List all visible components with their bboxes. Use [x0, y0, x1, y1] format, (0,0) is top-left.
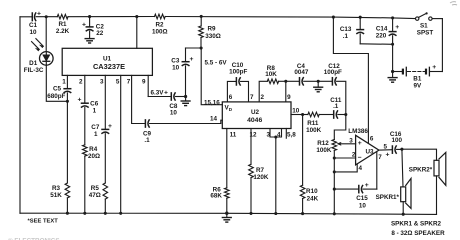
- svg-text:8 - 32Ω SPEAKER: 8 - 32Ω SPEAKER: [391, 230, 445, 237]
- wire top rail R1 to R2: [68, 16, 155, 18]
- resistor R4: [83, 145, 88, 156]
- svg-text:+: +: [395, 24, 399, 31]
- svg-text:LM386: LM386: [348, 128, 368, 135]
- node junction rail pins3,4: [274, 212, 277, 215]
- wire U1 pin9 stub: [147, 75, 149, 96]
- resistor R1: [57, 14, 68, 19]
- wire C1 node down to D1: [45, 17, 47, 52]
- node junction pins 3,4: [274, 135, 277, 138]
- svg-text:D1: D1: [29, 60, 38, 67]
- svg-text:12: 12: [249, 131, 257, 138]
- svg-text:4: 4: [277, 131, 281, 138]
- svg-text:4046: 4046: [247, 117, 262, 124]
- svg-text:C5: C5: [53, 86, 62, 93]
- wire right border down to battery: [441, 19, 443, 72]
- svg-text:6.3V: 6.3V: [151, 90, 165, 97]
- svg-text:R5: R5: [91, 185, 100, 192]
- node junction battery minus: [391, 70, 394, 73]
- svg-text:5: 5: [384, 143, 388, 150]
- svg-text:6: 6: [229, 94, 233, 101]
- capacitor C7: [102, 129, 109, 133]
- wire top rail left: [20, 16, 32, 18]
- svg-text:120K: 120K: [253, 174, 269, 181]
- wire U2 pin2 stub up: [259, 81, 267, 102]
- svg-text:5,8: 5,8: [287, 132, 296, 139]
- wire R12 bottom to ground rail: [333, 158, 335, 214]
- wire C13 ground link to C14: [360, 43, 392, 46]
- wire pins 3,4 to ground rail: [275, 137, 277, 214]
- wire ground rail: [20, 213, 437, 214]
- wire pin2 of LM386: [334, 157, 355, 159]
- wire U2 pin11 stub: [226, 129, 228, 188]
- wire node to SPKR1: [402, 149, 403, 187]
- svg-text:SPST: SPST: [417, 29, 434, 36]
- svg-text:2: 2: [79, 78, 83, 85]
- IC U2 box 4046: [222, 102, 291, 129]
- capacitor C11: [334, 111, 338, 118]
- svg-text:+: +: [432, 64, 436, 71]
- svg-text:9V: 9V: [413, 83, 422, 90]
- wire pin4 to ground: [334, 164, 357, 172]
- svg-text:R10: R10: [306, 188, 318, 195]
- node junction C2: [88, 15, 91, 18]
- capacitor C8: [171, 93, 175, 100]
- svg-text:VD: VD: [225, 105, 233, 112]
- svg-text:24K: 24K: [307, 195, 319, 202]
- svg-text:14: 14: [210, 115, 218, 122]
- capacitor C14: [392, 18, 394, 31]
- svg-text:680pF: 680pF: [47, 93, 65, 100]
- svg-text:11: 11: [230, 131, 237, 138]
- svg-text:100: 100: [391, 137, 402, 144]
- node junction C13: [359, 16, 362, 19]
- wire U1 pin7 down and right: [132, 75, 145, 123]
- svg-text:4: 4: [358, 165, 362, 172]
- wire C10 to pin7: [241, 81, 249, 102]
- svg-text:C7: C7: [91, 124, 100, 131]
- svg-text:SPKR1*: SPKR1*: [376, 194, 400, 201]
- svg-text:3: 3: [349, 138, 353, 145]
- svg-text:2: 2: [260, 94, 264, 101]
- svg-text:100pF: 100pF: [229, 69, 247, 76]
- svg-text:3: 3: [100, 78, 104, 85]
- svg-text:10: 10: [292, 108, 300, 115]
- svg-text:FIL-3C: FIL-3C: [24, 67, 44, 74]
- wire U1 pin2 stub: [84, 75, 86, 102]
- resistor R3: [65, 183, 70, 198]
- wire C15 up to pin7: [376, 152, 378, 189]
- wire U2 pin6 stub up: [227, 81, 236, 102]
- svg-text:R12: R12: [317, 140, 329, 147]
- svg-text:5.5 - 6V: 5.5 - 6V: [205, 59, 228, 66]
- svg-text:R7: R7: [256, 167, 265, 174]
- svg-text:9: 9: [142, 78, 146, 85]
- svg-text:7: 7: [250, 94, 254, 101]
- op-amp U3 LM386: [356, 135, 379, 165]
- node junction rail R10: [301, 212, 304, 215]
- svg-text:7: 7: [378, 154, 382, 161]
- svg-text:+: +: [386, 152, 390, 159]
- resistor R2: [155, 14, 166, 19]
- svg-text:+: +: [78, 97, 82, 104]
- svg-text:100K: 100K: [316, 147, 332, 154]
- wire LM386 output pin5: [379, 149, 392, 151]
- node junction C11-C12-R12: [344, 113, 347, 116]
- svg-text:R1: R1: [58, 21, 67, 28]
- svg-text:10K: 10K: [265, 71, 277, 78]
- svg-text:10: 10: [359, 202, 367, 209]
- wire pin1 node to R3: [66, 101, 68, 183]
- capacitor C10: [236, 78, 240, 85]
- wire C9 to U2 pin14: [150, 120, 223, 123]
- svg-text:.1: .1: [333, 103, 339, 110]
- svg-text:U3: U3: [365, 148, 374, 155]
- svg-text:100Ω: 100Ω: [152, 28, 168, 35]
- svg-text:.1: .1: [343, 33, 349, 40]
- capacitor C3: [185, 48, 187, 61]
- svg-text:+: +: [164, 90, 168, 97]
- svg-text:SPKR1 & SPKR2: SPKR1 & SPKR2: [391, 221, 442, 228]
- wire R9 to C3: [186, 47, 202, 49]
- svg-text:+: +: [82, 21, 86, 28]
- svg-text:0047: 0047: [294, 69, 309, 76]
- wire U2 pins 3,4 tie: [270, 129, 282, 138]
- node junction rail R6: [225, 212, 228, 215]
- wire U2 pin10 stub: [291, 114, 303, 116]
- svg-text:5: 5: [116, 78, 120, 85]
- wire R12 wiper to pin3: [339, 143, 355, 145]
- svg-text:.1: .1: [144, 137, 150, 144]
- ground below C8 node: [185, 97, 187, 101]
- svg-text:7: 7: [127, 78, 131, 85]
- wire C11 node to R12 top: [334, 115, 346, 140]
- svg-text:330Ω: 330Ω: [205, 33, 221, 40]
- svg-text:+: +: [108, 123, 112, 130]
- ground below rail at pin11: [226, 213, 228, 217]
- wire U1 pin5 to ground rail: [120, 75, 122, 213]
- wire U1 pin3 stub: [104, 75, 106, 129]
- node junction C1-D1: [45, 15, 48, 18]
- node junction LM386 supply: [332, 16, 335, 19]
- node junction pin10-R11-R10: [301, 113, 304, 116]
- ground below battery minus: [392, 72, 394, 78]
- svg-text:10: 10: [172, 64, 180, 71]
- svg-text:+: +: [190, 56, 194, 63]
- capacitor C5: [64, 89, 71, 93]
- svg-text:68K: 68K: [210, 193, 222, 200]
- svg-text:U2: U2: [251, 109, 260, 116]
- capacitor C6: [82, 103, 89, 107]
- resistor R10: [302, 115, 304, 186]
- wire R9 down to U2 Vdd pins 15,16: [201, 48, 222, 105]
- node junction rail R3: [66, 212, 69, 215]
- wire node to SPKR2: [402, 149, 437, 160]
- svg-text:R11: R11: [307, 120, 319, 127]
- svg-text:220: 220: [376, 32, 387, 39]
- svg-text:9: 9: [287, 94, 291, 101]
- wire pin9 stub: [285, 81, 287, 102]
- svg-text:*SEE TEXT: *SEE TEXT: [28, 219, 59, 225]
- resistor R6: [225, 188, 230, 198]
- node junction pin4 ground: [333, 170, 336, 173]
- svg-text:R2: R2: [155, 21, 164, 28]
- svg-text:15,16: 15,16: [204, 99, 220, 106]
- node junction R9 bottom: [200, 46, 203, 49]
- wire U1 pin1 stub: [66, 75, 68, 88]
- capacitor C2: [89, 17, 91, 27]
- resistor R7: [249, 164, 254, 177]
- op-amp U1 box: [62, 48, 152, 75]
- node junction speakers: [400, 148, 403, 151]
- wire top rail R2 to S1: [165, 17, 415, 19]
- node junction rail R4: [83, 212, 86, 215]
- wire U2 pin12 stub: [250, 129, 252, 165]
- resistor R9: [200, 16, 202, 26]
- svg-text:+: +: [365, 182, 369, 189]
- wire U2 pin 5,8 stub: [285, 129, 287, 139]
- svg-text:R9: R9: [207, 26, 216, 33]
- wire top rail C1 to R1: [36, 16, 57, 18]
- node junction C14 ground: [391, 43, 394, 46]
- capacitor C13: [359, 17, 361, 29]
- node junction rail SPKR1: [402, 213, 405, 216]
- node junction R9: [200, 15, 203, 18]
- svg-text:C6: C6: [90, 100, 99, 107]
- node junction R8-C4-pin9: [284, 80, 287, 83]
- svg-text:51K: 51K: [50, 192, 62, 199]
- node junction pin1-D1: [66, 100, 69, 103]
- svg-text:6: 6: [370, 135, 374, 142]
- svg-text:10: 10: [29, 29, 37, 36]
- svg-text:2.2K: 2.2K: [56, 28, 70, 35]
- node junction C8-C3-ground: [184, 95, 187, 98]
- svg-text:CA3237E: CA3237E: [93, 62, 125, 71]
- wire SPKR1 to ground rail: [402, 202, 404, 215]
- wire SPKR2 to ground rail: [436, 176, 438, 215]
- wire pin9 to C8: [148, 96, 171, 98]
- speaker SPKR1: [401, 187, 406, 202]
- resistor R8: [267, 79, 278, 84]
- svg-text:1: 1: [93, 107, 97, 114]
- node junction rail LM386 ground: [333, 212, 336, 215]
- svg-text:© ELECTRONICS: © ELECTRONICS: [8, 237, 60, 240]
- speaker SPKR2: [434, 160, 439, 176]
- node junction rail R7: [249, 212, 252, 215]
- capacitor C4: [286, 80, 299, 82]
- svg-text:22: 22: [96, 30, 104, 37]
- svg-text:R3: R3: [52, 185, 61, 192]
- svg-text:100K: 100K: [306, 127, 322, 134]
- wire left border: [19, 17, 21, 213]
- corner smudge: [450, 2, 457, 5]
- ground below C4-C12 node: [317, 81, 319, 86]
- wire U1 supply drop: [136, 17, 138, 49]
- capacitor C15: [334, 188, 358, 190]
- capacitor C12: [318, 80, 332, 82]
- svg-text:C3: C3: [171, 57, 180, 64]
- wire S1 to right border: [432, 18, 442, 20]
- svg-text:+: +: [358, 140, 362, 147]
- node junction U1 supply: [135, 15, 138, 18]
- svg-text:10: 10: [170, 109, 178, 116]
- svg-text:−: −: [358, 155, 362, 162]
- node junction C14: [391, 16, 394, 19]
- potentiometer R12: [332, 140, 337, 151]
- battery B1: [393, 71, 403, 73]
- svg-text:R4: R4: [89, 146, 98, 153]
- node junction R12 bottom: [333, 156, 336, 159]
- capacitor C1: [32, 13, 35, 21]
- switch S1: [416, 17, 419, 20]
- svg-text:1: 1: [94, 131, 98, 138]
- svg-text:47Ω: 47Ω: [89, 192, 101, 199]
- resistor R11: [303, 114, 308, 116]
- wire D1 to C5 node: [46, 65, 67, 101]
- svg-text:C1: C1: [29, 22, 38, 29]
- capacitor C9: [145, 120, 149, 127]
- node junction rail pin5: [119, 212, 122, 215]
- node junction C4-C12-ground: [317, 80, 320, 83]
- svg-text:C15: C15: [356, 195, 368, 202]
- resistor R5: [103, 183, 108, 199]
- svg-text:3: 3: [266, 131, 270, 138]
- node junction C15 ground: [333, 188, 336, 191]
- svg-text:100pF: 100pF: [324, 69, 342, 76]
- capacitor C16: [392, 146, 396, 153]
- wire +9V feed to LM386 pin6: [333, 17, 368, 143]
- svg-text:1: 1: [62, 78, 66, 85]
- svg-text:SPKR2*: SPKR2*: [409, 167, 433, 174]
- node junction rail R5: [104, 212, 107, 215]
- ground below C2: [85, 39, 94, 43]
- photodiode D1: [40, 52, 54, 66]
- svg-text:20Ω: 20Ω: [88, 153, 100, 160]
